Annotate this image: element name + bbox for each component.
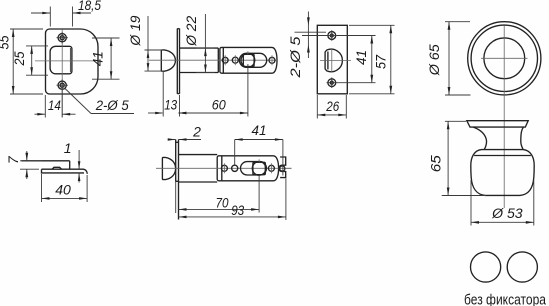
view2 mounting circle 2 [232, 55, 238, 65]
view4 vertical centerline down to side view [503, 26, 505, 209]
view2 spindle circle [241, 53, 255, 67]
view6 latch tube [179, 155, 218, 182]
view6 tailpiece circle [280, 166, 285, 171]
dimension 2 [168, 123, 201, 141]
view5 strike box step [69, 161, 71, 169]
view3 horizontal centerline [320, 60, 351, 62]
svg-text:2: 2 [192, 123, 201, 139]
view6 tailpiece centerline dash [286, 167, 291, 169]
svg-text:18,5: 18,5 [78, 0, 101, 13]
dimension diam 22 [183, 14, 215, 73]
svg-text:7: 7 [5, 155, 21, 164]
view2 spindle center tick [247, 51, 249, 54]
svg-text:57: 57 [373, 54, 389, 69]
dimension diam 19 [127, 15, 163, 71]
svg-text:65: 65 [427, 155, 443, 172]
dimension 70 with spindle leader [179, 175, 260, 213]
view3 bottom screw hole [327, 77, 338, 88]
svg-text:2-Ø 5: 2-Ø 5 [287, 36, 303, 78]
dimension 18,5 [31, 0, 101, 27]
view6 mounting circle 1 [221, 163, 227, 173]
view6 latch body [217, 156, 278, 181]
dimension 93 [179, 179, 286, 221]
view3 strike plate outline [317, 25, 347, 94]
dimension 55 [0, 29, 43, 94]
view4 horizontal centerline [481, 57, 528, 59]
svg-text:Ø 65: Ø 65 [426, 44, 442, 76]
svg-text:2-Ø 5: 2-Ø 5 [95, 97, 129, 113]
view7 ball seam line [474, 155, 531, 157]
svg-text:41: 41 [252, 122, 267, 138]
dimension 41 right of faceplate [90, 38, 120, 79]
svg-text:Ø 19: Ø 19 [127, 15, 143, 46]
view1 faceplate outline [46, 29, 99, 94]
svg-text:25: 25 [11, 51, 27, 66]
view5 strike box top edge [21, 160, 69, 162]
view6 mounting circle 2 [232, 165, 238, 171]
svg-text:41: 41 [353, 50, 369, 65]
view2 latch body [220, 47, 277, 73]
view1 horizontal centerline [35, 60, 94, 62]
view6 bolt head dome [162, 157, 175, 179]
view6 end circle [268, 163, 274, 173]
dimension 26 [317, 95, 346, 119]
svg-text:40: 40 [55, 182, 71, 198]
view1 latch cutout [50, 46, 72, 74]
view2 body flange line [222, 47, 224, 73]
view3 vertical centerline [331, 48, 333, 72]
svg-text:41: 41 [90, 51, 106, 66]
dimension 65 [427, 121, 486, 195]
view6 body flange line [221, 156, 223, 181]
view4 knob outer circle [468, 22, 541, 95]
svg-text:55: 55 [0, 35, 12, 49]
view2 spindle square hole [243, 54, 254, 66]
view6 spindle circle [252, 162, 266, 176]
dimension 14 [35, 91, 76, 118]
label 2-diam-5 vertical with pointer [287, 12, 328, 79]
dimension 41 strike [337, 36, 376, 83]
dimension diam 53 [471, 180, 534, 226]
view2 latch cylinder [180, 48, 219, 72]
view1 bottom screw hole [57, 80, 68, 91]
svg-text:93: 93 [231, 202, 244, 218]
svg-text:Ø 53: Ø 53 [491, 205, 523, 221]
view5 plate bar [42, 169, 88, 174]
view6 spindle square hole [253, 162, 265, 174]
dimension 60 with spindle leader [178, 64, 248, 117]
view2 mounting circle 1 [222, 55, 228, 65]
dimension 13 [148, 72, 192, 117]
view6 horizontal centerline [156, 167, 292, 169]
svg-text:без фиксатора: без фиксатора [464, 292, 547, 306]
dimension diam 65 [426, 22, 471, 95]
dimension 57 [349, 25, 395, 94]
svg-text:1: 1 [64, 140, 72, 156]
variant circle right [507, 252, 537, 282]
dimension 1 [64, 140, 81, 183]
svg-text:60: 60 [212, 97, 226, 113]
view5 latch bump [52, 167, 62, 169]
view6 spindle center tick [258, 159, 260, 162]
view3 cutout inner chord line [327, 52, 329, 70]
view1 top screw hole [57, 32, 68, 43]
view7 neck left profile [473, 127, 486, 150]
dimension 7 [5, 151, 42, 179]
svg-text:13: 13 [164, 97, 177, 113]
svg-text:26: 26 [325, 98, 339, 114]
svg-text:Ø 22: Ø 22 [183, 16, 199, 47]
dimension 25 [11, 46, 48, 75]
view3 latch hole D-cutout [325, 49, 342, 72]
svg-text:14: 14 [48, 97, 61, 113]
svg-text:70: 70 [216, 194, 229, 210]
view4 knob rim circle [471, 25, 537, 91]
view7 knob ball [471, 150, 534, 196]
view7 rose flange [467, 121, 528, 127]
view2 faceplate edge-on [177, 29, 179, 94]
dimension 41 latch [235, 122, 283, 176]
view4 knob inner circle [484, 38, 525, 79]
view2 bolt head dome [161, 50, 175, 71]
view2 spindle slot stadium [239, 53, 266, 67]
view1 cutout inner edge line [69, 48, 71, 72]
view7 neck right profile [521, 127, 524, 150]
label 2-diam-5 with leader [65, 88, 135, 114]
view6 spindle slot stadium [241, 162, 267, 175]
view2 end circle [269, 55, 275, 65]
view3 top screw hole [327, 30, 338, 41]
view2 horizontal centerline [149, 59, 277, 61]
view1 vertical centerline through holes [61, 29, 63, 117]
dimension 40 [42, 174, 88, 202]
variant circle left [471, 252, 501, 282]
view6 spindle cam tailpiece [279, 157, 286, 178]
view6 faceplate edge-on with extension lines [176, 140, 179, 220]
